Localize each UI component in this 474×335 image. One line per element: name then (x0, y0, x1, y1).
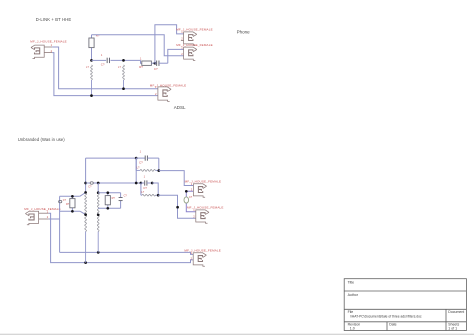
node junction branch2 left (140, 182, 143, 185)
label Phone (237, 30, 251, 35)
wire R1 top to Phone jack J3 pin2 (92, 35, 184, 56)
svg-text:C?: C? (101, 62, 105, 66)
svg-text:MF_J_HOUSE_FEMALE: MF_J_HOUSE_FEMALE (30, 40, 67, 44)
wire J6 pin2 to J7 pin1 (with C8) (186, 191, 196, 212)
svg-text:R?: R? (139, 65, 143, 69)
inductor L5 (horizontal, branch1) (136, 158, 159, 171)
resistor R3 (vertical, combo1) (66, 196, 75, 211)
node junction branch1 out (157, 169, 160, 172)
svg-text:File: File (348, 310, 354, 314)
svg-text:\\HAT-PC\Documents\tale of thr: \\HAT-PC\Documents\tale of three adsl fi… (350, 315, 422, 319)
node junction L4 bottom on bus1 (97, 251, 100, 254)
node junction L4 mid tap (97, 213, 100, 216)
capacitor C6 (series, branch1) (136, 150, 159, 165)
svg-text:1 of 1: 1 of 1 (448, 327, 457, 331)
node junction L2 bottom on net A (122, 87, 125, 90)
wire L4 tee down (97, 183, 99, 193)
node junction branch2 mid (151, 182, 154, 185)
capacitor C8 (round, vertical link) (184, 196, 193, 203)
combo1 top rail (60, 193, 86, 197)
connector J7 MF_J_HOUSE_FEMALE (lower right lower) (187, 205, 224, 223)
node junction L4 top tee (97, 182, 100, 185)
node junction L1 bottom on net B (90, 94, 93, 97)
inductor L3 (vertical, lower section) (85, 193, 87, 262)
connector J1 MF_J_HOUSE_FEMALE (D-LINK side) (30, 40, 67, 59)
node junction L2 top (122, 59, 125, 62)
wire branch2 out to J7 pin2 (158, 195, 196, 218)
node junction on branch2 drop (176, 206, 179, 209)
capacitor C3 (round, on combo1 left leg) (59, 199, 67, 203)
connector J3 MF_J_HOUSE_FEMALE (Phone, lower) (176, 43, 213, 61)
connector J6 MF_J_HOUSE_FEMALE (lower right upper) (185, 179, 222, 197)
section title D-LINK + BT HHE (36, 17, 72, 22)
title block table (344, 279, 466, 331)
wire R2 to node C (151, 62, 155, 64)
svg-text:C?: C? (154, 67, 158, 71)
svg-text:Document: Document (448, 310, 464, 314)
combo2 top rail (98, 192, 120, 194)
inductor L1 (vertical) (86, 65, 92, 96)
resistor R1 (vertical) (89, 34, 100, 61)
wire riser top-left corner to branch1 (86, 157, 137, 159)
svg-text:R?: R? (96, 34, 100, 38)
svg-text:Date: Date (389, 322, 396, 326)
wire J5 pin1 to bus2 (bottom) (49, 213, 194, 262)
node junction L3 top (84, 191, 87, 194)
wire J1 pin2 to ADSL pin2 (net B) (52, 53, 158, 96)
svg-text:MF_J_HOUSE_FEMALE: MF_J_HOUSE_FEMALE (24, 207, 61, 211)
wire riser node C to Phone jack J2 pin1 (155, 25, 184, 63)
svg-text:C?: C? (139, 161, 143, 165)
label ADSL (174, 105, 186, 110)
connector J5 MF_J_HOUSE_FEMALE (line in, lower section) (24, 207, 61, 225)
combo2 right leg with capacitor C5 (119, 193, 128, 209)
wire branch1 out to J6 pin1 (159, 171, 194, 186)
wire R1 bottom to R2 with jog (92, 60, 142, 63)
svg-text:Author: Author (348, 293, 359, 297)
node junction R1 bottom / L1 top (90, 59, 93, 62)
combo1 bottom rail (60, 211, 86, 214)
connector J4 MF_J_HOUSE_FEMALE (ADSL) (150, 83, 187, 101)
node junction mid-bus left (84, 182, 87, 185)
svg-text:ADSL: ADSL (174, 105, 186, 110)
connector J2 MF_J_HOUSE_FEMALE (Phone, upper) (176, 28, 213, 46)
capacitor C4 (round, on mid bus) (88, 182, 93, 189)
svg-text:C?: C? (143, 186, 147, 190)
svg-text:Unbranded (Was in use): Unbranded (Was in use) (18, 137, 66, 142)
wire J1 pin1 to ADSL pin1 (net A) (52, 47, 158, 89)
node junction R3 top (71, 195, 74, 198)
node junction R4 bottom (106, 207, 109, 210)
wire C2 to Phone jack J3 pin1 (168, 49, 184, 63)
capacitor C7 (series, branch2) (141, 175, 152, 190)
mid bus wire (86, 182, 141, 184)
node junction branch1 left (135, 157, 138, 160)
node junction J6 pin2 link (185, 190, 188, 193)
capacitor C2 (series, horizontal) (154, 61, 168, 71)
node junction L3 bottom on bus2 (84, 261, 87, 264)
node junction branch2 out (157, 194, 160, 197)
node junction R3 bottom (71, 210, 74, 213)
svg-text:D-LINK + BT HHE: D-LINK + BT HHE (36, 17, 72, 22)
wire J5 pin2 / combo1 left / bus1 (49, 196, 194, 254)
inductor L2 (vertical) (118, 65, 124, 89)
node junction C (R2 / C2 / vertical riser) (154, 62, 157, 65)
wire branch1 right down (158, 158, 160, 171)
wire riser lower-left (x 85.6) (85, 158, 87, 192)
wire branch1 tee from mid bus (135, 158, 137, 183)
node junction R4 top (106, 191, 109, 194)
node junction L4 upper (97, 191, 100, 194)
svg-text:Phone: Phone (237, 30, 251, 35)
inductor L4 (vertical, lower section) (97, 193, 99, 252)
resistor R2 (horizontal) (139, 56, 151, 69)
capacitor C1 (series, horizontal) (101, 53, 110, 67)
node junction branch1 tee on mid bus (135, 182, 138, 185)
wire branch2 to right corner (152, 183, 158, 195)
page border bottom (0, 333, 474, 335)
connector J8 MF_J_HOUSE_FEMALE (bottom right) (184, 249, 221, 267)
node junction L3 mid tap (84, 213, 87, 216)
resistor R4 (vertical, combo2) (105, 193, 115, 209)
svg-text:1.0: 1.0 (350, 327, 355, 331)
section title Unbranded (Was in use) (18, 137, 66, 142)
svg-text:Title: Title (348, 281, 355, 285)
combo2 bottom rail (98, 207, 120, 209)
inductor L6 (horizontal, branch2) (141, 183, 158, 196)
